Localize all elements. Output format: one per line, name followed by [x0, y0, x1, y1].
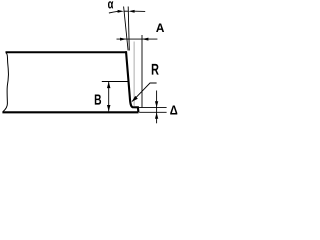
original tip vertical reference line (faint) [133, 42, 135, 107]
alpha vertical reference line [128, 7, 129, 51]
label A [156, 24, 164, 32]
wavy break line (left edge) [3, 53, 8, 112]
R leader arrowhead [132, 96, 138, 102]
alpha dimension middle segment [124, 10, 129, 12]
label B [95, 94, 101, 104]
alpha dimension right arrowhead [128, 10, 134, 13]
label alpha [108, 1, 113, 8]
dimension Delta lower arrowhead (points up) [155, 113, 158, 119]
dimension B vertical line [108, 82, 110, 112]
tip level extension line [139, 107, 167, 109]
alpha dimension left arrowhead [118, 10, 124, 13]
alpha dimension right tail [134, 10, 145, 12]
tip corner vertical extension line (A right end) [141, 35, 143, 107]
R leader line [132, 83, 156, 101]
bottom level extension line [139, 111, 166, 113]
label Delta [170, 105, 177, 114]
dimension B top arrowhead [107, 82, 111, 88]
dimension B bottom arrowhead [107, 105, 111, 111]
top surface line [6, 51, 127, 53]
dimension A left arrowhead [120, 38, 126, 41]
alpha dimension left leader tail [109, 11, 118, 13]
front face edge (angle alpha) with radius R tip, flat land and heel step [126, 51, 138, 112]
label R [152, 64, 159, 75]
dimension A line [117, 38, 158, 40]
bottom surface line [2, 111, 138, 113]
B top extension line [102, 81, 128, 83]
dimension A right arrowhead [142, 38, 148, 41]
alpha extension line (slanted face extension) [124, 7, 129, 51]
dimension Delta vertical line [156, 91, 158, 124]
dimension Delta upper arrowhead (points down) [155, 101, 158, 107]
